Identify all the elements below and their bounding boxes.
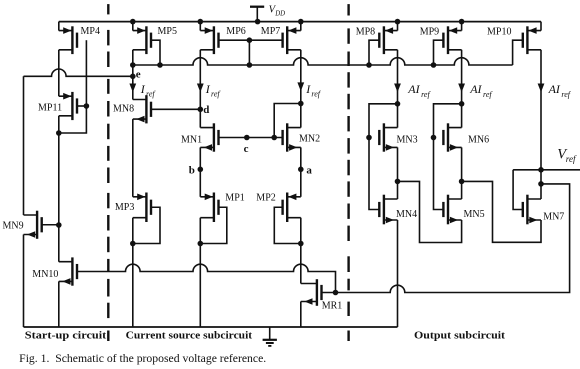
transistor MN4 <box>379 195 397 225</box>
wire MP5 gate lead and vertical <box>151 40 160 65</box>
wire MP2 drain junction to MR1 drain <box>300 244 302 284</box>
label node a <box>306 165 312 177</box>
junction rail MP8 source <box>395 19 401 25</box>
wire MN3 drain junction down <box>397 104 399 128</box>
junction MP11 drain <box>56 130 62 136</box>
node c <box>244 135 250 141</box>
svg-text:MN9: MN9 <box>3 221 24 232</box>
wire MP3 gate diode loop <box>133 207 160 243</box>
label MN2 <box>299 134 320 145</box>
wire MN4 drain junction to MN5 source <box>398 181 462 242</box>
wire MN6 gate-drain diode connection <box>434 104 462 138</box>
junction MP2 gate-drain <box>298 241 304 247</box>
wire MN5 drain junction to MN7 source <box>462 181 541 242</box>
svg-text:MN6: MN6 <box>468 134 489 145</box>
wire MP3 drain junction to ground <box>132 244 134 328</box>
wire VDD top rail <box>59 21 541 23</box>
wire MP3 drain to diode junction <box>132 218 134 244</box>
wire MP6 MP7 shared gate <box>219 39 283 41</box>
label MP4 <box>81 26 100 37</box>
svg-text:Start-up circuit: Start-up circuit <box>25 330 107 342</box>
current arrow Iref into MN2 <box>297 82 304 91</box>
svg-text:MN4: MN4 <box>396 209 417 220</box>
junction rail MP7 source <box>298 19 304 25</box>
svg-text:MN8: MN8 <box>113 104 134 115</box>
wire MP7 drain to MN2 drain junction <box>300 50 302 104</box>
label MP2 <box>256 192 275 203</box>
wire node e to MN9 drain <box>23 76 25 215</box>
svg-text:MP4: MP4 <box>81 26 100 37</box>
label MP11 <box>38 103 62 114</box>
svg-text:MN3: MN3 <box>397 134 418 145</box>
wire MN6 drain junction down <box>461 104 463 128</box>
label MP7 <box>261 26 280 37</box>
wire MP11 drain junction down to MN10 drain <box>58 133 60 262</box>
svg-text:c: c <box>244 143 249 155</box>
svg-text:MP1: MP1 <box>225 192 244 203</box>
svg-text:MN1: MN1 <box>181 134 202 145</box>
transistor MN7 <box>523 195 541 225</box>
label Output subcircuit section <box>414 330 505 342</box>
label MN10 <box>32 269 58 280</box>
transistor MR1 <box>301 279 322 306</box>
wire MP4 drain to MP11 source <box>58 50 60 96</box>
svg-text:AI: AI <box>548 82 561 96</box>
figure caption <box>19 353 266 365</box>
junction MP11 gate <box>84 103 90 109</box>
label MN9 <box>3 221 24 232</box>
junction rail MP5 source <box>130 19 136 25</box>
junction MP6 MP7 shared gate <box>247 37 253 43</box>
wire MN1 gate to node c to MN2 gate <box>219 137 283 139</box>
junction MN9 gate <box>56 222 62 228</box>
label AIref at MN3 <box>407 82 431 99</box>
svg-text:e: e <box>136 69 141 81</box>
wire MP6 MP7 gate down to rail <box>248 40 250 65</box>
wire MN10 source to ground <box>58 281 60 327</box>
label MP6 <box>226 26 245 37</box>
wire rail to MP8 source <box>397 22 399 31</box>
svg-text:AI: AI <box>407 82 420 96</box>
wire rail to MP9 source <box>461 22 463 31</box>
transistor MP10 <box>523 26 541 54</box>
label MP3 <box>115 202 134 213</box>
label AIref at MN6 <box>469 82 493 99</box>
junction rail MP9 source <box>459 19 465 25</box>
wire MN8 source to MP3 source <box>132 119 134 197</box>
label MP5 <box>158 26 177 37</box>
svg-text:DD: DD <box>274 11 285 18</box>
svg-text:MP2: MP2 <box>256 192 275 203</box>
wire MP11 gate lead <box>77 105 86 107</box>
junction MN3 source MN4 drain <box>395 179 401 185</box>
svg-text:MN7: MN7 <box>543 212 564 223</box>
transistor MP11 <box>59 92 77 120</box>
svg-text:AI: AI <box>469 82 482 96</box>
svg-text:b: b <box>189 165 195 177</box>
wire rail to MP5 source <box>132 22 134 31</box>
label MP10 <box>487 27 511 38</box>
junction MN6 gate <box>431 135 437 141</box>
node d <box>198 107 204 113</box>
transistor MN8 <box>133 95 151 123</box>
transistor MN6 <box>443 123 461 151</box>
svg-text:MP7: MP7 <box>261 26 280 37</box>
wire MN2 drain junction down <box>300 104 302 128</box>
junction MP5 drain on gate rail <box>130 62 136 68</box>
junction MN3 drain <box>395 101 401 107</box>
junction rail VDD stub <box>255 19 261 25</box>
label node b <box>189 165 195 177</box>
label MN1 <box>181 134 202 145</box>
junction Vref to MR1 gate rail <box>538 181 544 187</box>
current arrow AIref into MN3 <box>394 84 401 93</box>
label Iref at MN2 <box>305 82 322 99</box>
svg-text:MP8: MP8 <box>356 27 375 38</box>
junction MN6 source MN5 drain <box>459 179 465 185</box>
svg-text:MP9: MP9 <box>420 27 439 38</box>
node b <box>198 167 204 173</box>
wire rail to MP4 source <box>58 22 60 31</box>
wire Vref output <box>513 169 580 171</box>
wire MP4 gate vertical <box>85 40 87 106</box>
label node e <box>136 69 141 81</box>
label Iref at MN8 <box>140 82 157 99</box>
junction MP6 MP7 gate on gate rail <box>247 62 253 68</box>
wire MN1 source to node b to MP1 source <box>199 147 201 196</box>
wire MP6 drain to node d and MN1 drain <box>199 50 201 128</box>
transistor MN1 <box>200 123 218 151</box>
label MN5 <box>464 209 485 220</box>
transistor MP5 <box>133 26 151 54</box>
power VDD symbol <box>250 7 264 22</box>
transistor MP1 <box>200 193 218 223</box>
junction MP5 gate on gate rail <box>157 62 163 68</box>
wire MP11 drain down to diode junction <box>58 116 60 133</box>
ground symbol <box>263 327 277 346</box>
wire MN9 gate lead <box>42 224 59 226</box>
svg-text:MP5: MP5 <box>158 26 177 37</box>
transistor MN5 <box>443 195 461 225</box>
label MP9 <box>420 27 439 38</box>
junction MN2 gate <box>271 135 277 141</box>
wire MN6 gate junction down to MN5 gate <box>434 138 444 210</box>
dashed separator between start-up and current source subcircuits <box>107 4 109 341</box>
transistor MP6 <box>200 26 218 54</box>
current arrow AIref into MN6 <box>458 84 465 93</box>
svg-text:MN5: MN5 <box>464 209 485 220</box>
current arrow AIref into MN7 <box>538 84 545 93</box>
wire MR1 source to ground <box>300 302 302 328</box>
wire MN7 gate lead to Vref <box>513 170 523 210</box>
label MN4 <box>396 209 417 220</box>
wire MP10 gate lead and vertical <box>513 40 523 65</box>
svg-text:MN10: MN10 <box>32 269 58 280</box>
label Vref <box>557 147 577 164</box>
label MR1 <box>322 301 343 312</box>
wire MP1 drain to ground <box>199 218 201 327</box>
svg-text:MP11: MP11 <box>38 103 62 114</box>
transistor MP3 <box>133 193 151 223</box>
wire MN9 source to ground <box>23 235 25 328</box>
svg-text:a: a <box>306 165 312 177</box>
dashed separator between current source and output subcircuits <box>347 4 349 341</box>
wire MP9 gate lead and vertical <box>434 40 444 65</box>
wire MP11 gate-drain diode connection <box>59 106 87 133</box>
junction MN3 gate <box>366 135 372 141</box>
wire MN2 source to node a to MP2 source <box>300 147 302 196</box>
transistor MP9 <box>443 26 461 54</box>
label MP1 <box>225 192 244 203</box>
label MP8 <box>356 27 375 38</box>
wire node e horizontal with crossover hump <box>24 69 133 76</box>
label Start-up circuit section <box>25 330 107 342</box>
junction MN6 drain <box>459 101 465 107</box>
wire MP2 gate diode loop <box>274 207 301 243</box>
node e <box>130 74 136 80</box>
wire PMOS mirror gate rail with crossover humps <box>133 58 513 65</box>
svg-text:MP3: MP3 <box>115 202 134 213</box>
label VDD <box>269 5 286 18</box>
wire MP9 drain to MN6 drain junction <box>461 50 463 104</box>
junction MN2 drain <box>298 101 304 107</box>
transistor MN3 <box>379 123 397 151</box>
svg-text:MR1: MR1 <box>322 301 343 312</box>
junction MR1 gate <box>333 290 339 296</box>
label node d <box>203 104 209 116</box>
svg-text:MP10: MP10 <box>487 27 511 38</box>
wire rail to MP6 source <box>199 22 201 31</box>
label MN6 <box>468 134 489 145</box>
transistor MN10 <box>59 257 77 285</box>
svg-text:d: d <box>203 104 209 116</box>
label AIref at MN7 <box>548 82 572 99</box>
junction rail MP6 source <box>198 19 204 25</box>
current arrow Iref into MN8 <box>129 84 136 93</box>
junction MP9 gate on gate rail <box>431 62 437 68</box>
junction MP1 gate-drain <box>198 241 204 247</box>
wire node e down to MN8 drain <box>132 65 134 100</box>
current arrow Iref into node d <box>197 84 204 93</box>
transistor MN2 <box>283 123 301 151</box>
wire ground rail <box>24 326 398 328</box>
wire MP8 drain to MN3 drain junction <box>397 50 399 104</box>
junction Vref output <box>538 167 544 173</box>
wire MP8 gate lead and vertical <box>369 40 379 65</box>
label MN7 <box>543 212 564 223</box>
wire MP2 drain to diode junction <box>300 218 302 244</box>
wire rail to MP7 source <box>300 22 302 31</box>
wire MP10 drain to Vref node and MN7 drain <box>540 50 542 199</box>
transistor MN9 <box>24 211 42 239</box>
transistor MP7 <box>283 26 301 54</box>
junction MP8 gate on gate rail <box>366 62 372 68</box>
label Iref at node d <box>205 82 222 99</box>
wire MP1 gate diode loop <box>200 207 227 243</box>
wire MN3 gate junction down to MN4 gate <box>369 138 379 210</box>
node a <box>298 167 304 173</box>
wire MN2 gate-drain diode connection <box>274 104 301 138</box>
wire MN8 gate to node d <box>151 108 200 110</box>
label Current source subcircuit section <box>126 330 253 342</box>
transistor MP8 <box>379 26 397 54</box>
svg-text:Current source subcircuit: Current source subcircuit <box>126 330 253 342</box>
wire MR1 gate rail to Vref with crossover hump <box>322 184 570 293</box>
wire MN4 source to ground <box>397 220 399 327</box>
label node c <box>244 143 249 155</box>
label MN8 <box>113 104 134 115</box>
wire MN3 gate-drain diode connection <box>369 104 398 138</box>
svg-text:Output subcircuit: Output subcircuit <box>414 330 505 342</box>
wire MN3 source to MN4 drain <box>397 147 399 199</box>
wire rail corner to MP10 source <box>540 22 542 31</box>
wire MN10 gate to MR1 gate rail with crossover humps <box>77 264 336 292</box>
svg-text:MP6: MP6 <box>226 26 245 37</box>
svg-text:ref: ref <box>566 154 577 164</box>
junction MP3 gate-drain <box>130 241 136 247</box>
wire MN6 source to MN5 drain <box>461 147 463 199</box>
svg-text:MN2: MN2 <box>299 134 320 145</box>
transistor MP2 <box>283 193 301 223</box>
svg-text:Fig. 1. Schematic of the prop: Fig. 1. Schematic of the proposed voltag… <box>19 353 266 365</box>
label MN3 <box>397 134 418 145</box>
transistor MP4 <box>59 26 77 54</box>
wire MP5 drain to gate rail <box>132 50 134 65</box>
